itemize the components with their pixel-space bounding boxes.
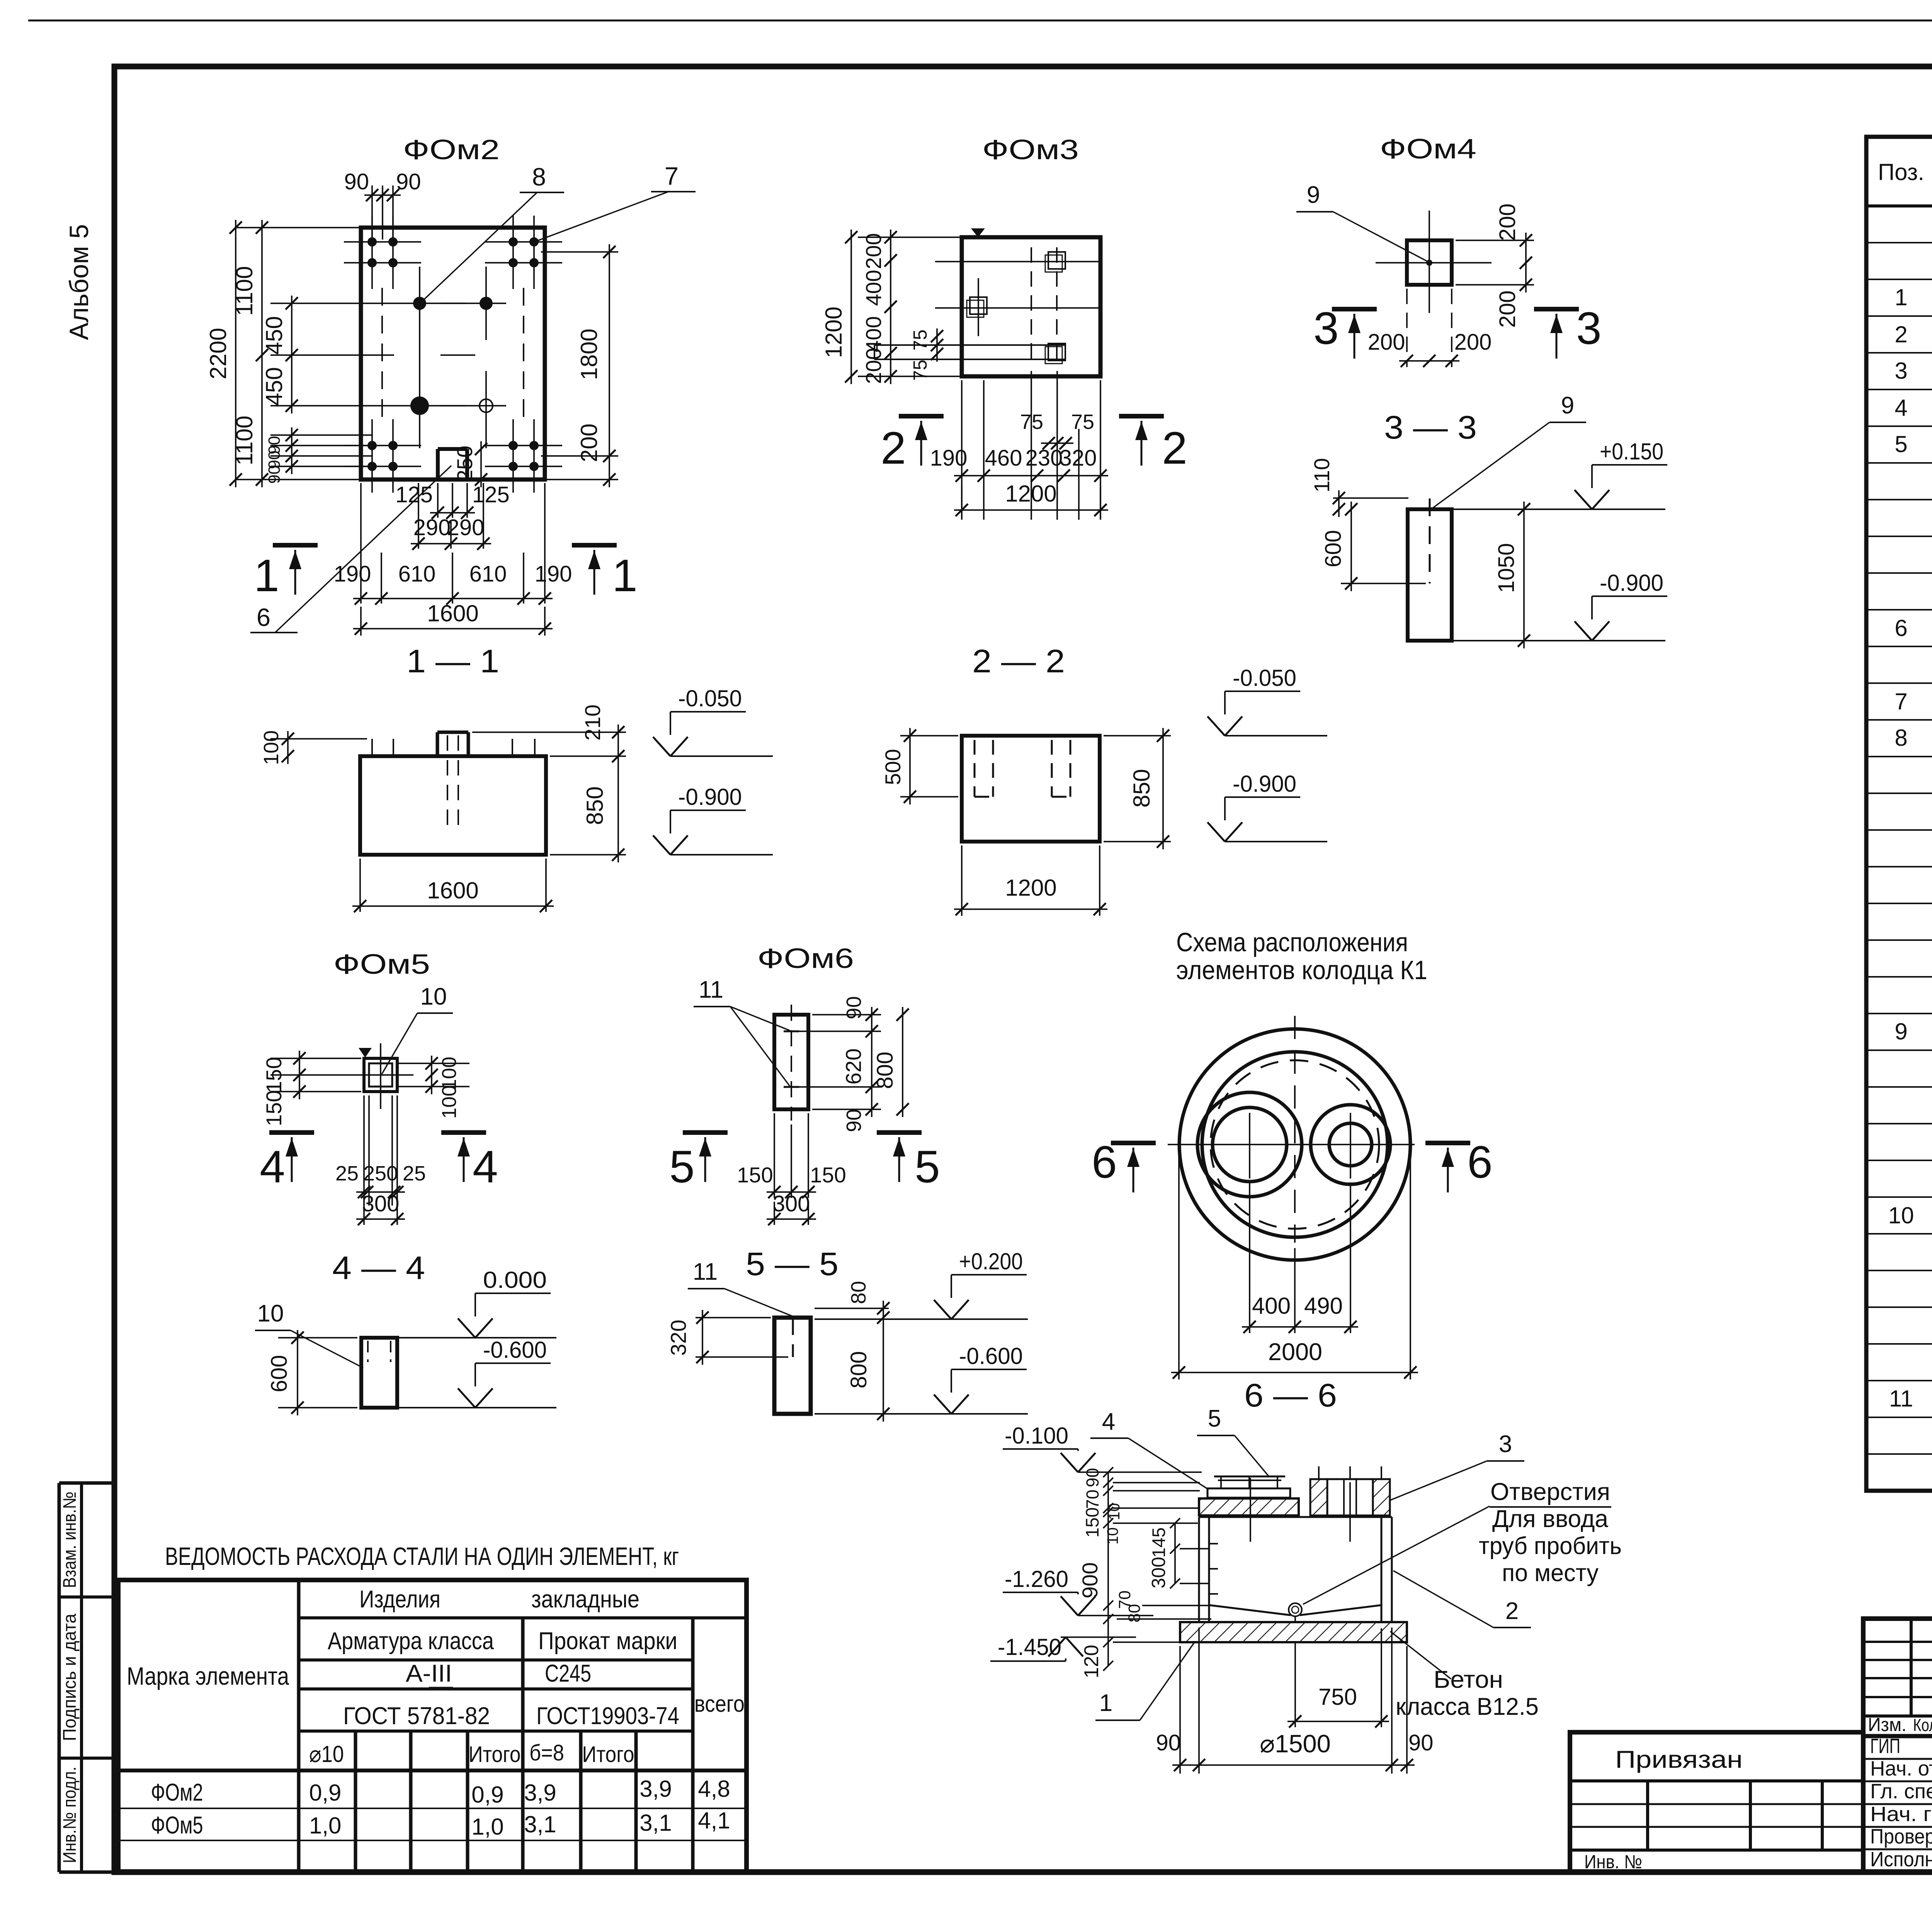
svg-text:75: 75 (1071, 410, 1094, 434)
svg-text:Итого: Итого (469, 1742, 521, 1767)
svg-text:Исполн.: Исполн. (1870, 1848, 1932, 1871)
FOm2 leader 6 (275, 466, 451, 633)
svg-text:1: 1 (254, 550, 279, 601)
svg-text:ВЕДОМОСТЬ РАСХОДА СТАЛИ НА ОДИ: ВЕДОМОСТЬ РАСХОДА СТАЛИ НА ОДИН ЭЛЕМЕНТ,… (165, 1542, 679, 1570)
spec table outer frame (1866, 137, 1932, 1491)
FOm2 mid horizontal thin line (373, 354, 394, 356)
svg-text:1: 1 (1099, 1690, 1112, 1716)
svg-text:Нач. гр.: Нач. гр. (1870, 1803, 1932, 1826)
FOm6 right dim 800 (902, 1007, 903, 1117)
schema horizontal axis (1168, 1144, 1415, 1145)
svg-text:-0.100: -0.100 (1005, 1423, 1068, 1449)
svg-text:Изделия: Изделия (359, 1586, 440, 1613)
svg-text:11: 11 (693, 1259, 718, 1285)
svg-text:Привязан: Привязан (1615, 1746, 1743, 1773)
svg-text:150: 150 (737, 1163, 773, 1187)
svg-text:9: 9 (1561, 392, 1574, 419)
svg-text:4: 4 (260, 1141, 285, 1192)
svg-text:600: 600 (267, 1355, 292, 1393)
svg-text:Гл. спец.: Гл. спец. (1870, 1780, 1932, 1803)
FOm3 left dim 1200 (850, 230, 852, 384)
svg-text:5: 5 (1208, 1405, 1221, 1432)
svg-text:6: 6 (1895, 615, 1907, 641)
FOm6 section mark 5 right (877, 1130, 922, 1135)
FOm4 bottom dashed extensions (1406, 289, 1408, 367)
svg-text:400: 400 (861, 316, 886, 352)
schema pipe axis verticals (1249, 1113, 1250, 1179)
FOm2 section mark 1 left (273, 543, 318, 548)
FOm2 centre dashed axis lines (381, 288, 383, 427)
section 5-5 elevation +0.200 (951, 1274, 1027, 1276)
FOm3 small dims 75 75 bottom (1041, 442, 1073, 444)
svg-text:-1.450: -1.450 (998, 1634, 1061, 1660)
svg-text:850: 850 (1129, 769, 1155, 808)
FOm6 bottom dim 300 (774, 1202, 775, 1225)
svg-text:6: 6 (1467, 1137, 1493, 1188)
FOm2 corner bolt cluster bottom-right (512, 419, 514, 493)
svg-text:200: 200 (1454, 330, 1492, 355)
svg-text:0.000: 0.000 (483, 1267, 547, 1293)
svg-text:2: 2 (1505, 1598, 1519, 1624)
schema outer ring circle (1179, 1029, 1410, 1260)
svg-text:2: 2 (1895, 321, 1907, 347)
svg-text:1600: 1600 (427, 878, 478, 903)
FOm3 left dim chain 200 400 400 200 (858, 236, 966, 238)
svg-text:320: 320 (666, 1320, 690, 1355)
svg-text:150: 150 (1082, 1507, 1102, 1537)
FOm3 embedded plate top-right (1048, 252, 1065, 269)
svg-text:Бетон: Бетон (1434, 1666, 1503, 1693)
FOm3 bottom dim 190 460 230 320 (954, 475, 1108, 476)
FOm2 right dim 1800 200 (541, 251, 618, 253)
svg-text:4: 4 (1895, 395, 1907, 421)
svg-text:Прокат марки: Прокат марки (538, 1628, 677, 1655)
FOm5 right dims 100 100 (431, 1056, 432, 1094)
6-6 dished floor (1209, 1605, 1291, 1615)
section 1-1 elevation -0.900 (670, 810, 746, 811)
svg-text:1100: 1100 (231, 266, 257, 316)
svg-text:5 — 5: 5 — 5 (746, 1246, 838, 1282)
svg-text:2000: 2000 (1268, 1338, 1322, 1366)
svg-text:900: 900 (1078, 1562, 1102, 1598)
6-6 concrete leader (1390, 1631, 1451, 1679)
svg-text:ФОм2: ФОм2 (403, 134, 500, 165)
svg-text:620: 620 (841, 1048, 866, 1084)
svg-text:100: 100 (438, 1085, 461, 1119)
FOm2 anchor bolts middle row lower (410, 396, 429, 415)
FOm3 small dims 75 75 left (936, 328, 938, 362)
svg-text:1200: 1200 (821, 306, 847, 358)
section 5-5 dashed bolt (792, 1320, 794, 1357)
svg-text:75: 75 (910, 330, 931, 351)
section 5-5 dim 80 800 right (815, 1308, 889, 1309)
schema dashed circle (1211, 1060, 1379, 1229)
FOm2 anchor bolts middle row upper (413, 297, 426, 310)
FOm3 top level triangle marker (971, 228, 985, 237)
svg-text:8: 8 (1895, 725, 1907, 751)
svg-text:490: 490 (1304, 1293, 1343, 1319)
FOm2 plate outline (361, 228, 545, 480)
svg-text:-0.050: -0.050 (678, 685, 742, 711)
FOm5 section mark 4 left (269, 1130, 314, 1135)
svg-text:450: 450 (261, 367, 287, 406)
6-6 bolt stubs above blocks (1318, 1466, 1320, 1479)
section 2-2 dashed anchor sockets (974, 740, 976, 797)
svg-text:7: 7 (1895, 689, 1907, 714)
svg-text:ФОм5: ФОм5 (151, 1812, 203, 1839)
section 1-1 dim 1600 bottom (359, 859, 361, 912)
svg-text:100: 100 (260, 730, 283, 765)
svg-text:110: 110 (1310, 458, 1334, 492)
svg-text:450: 450 (261, 316, 287, 355)
svg-text:ФОм6: ФОм6 (757, 943, 854, 974)
FOm5 level triangle marker (359, 1048, 372, 1058)
6-6 left dims 70 80 small (1117, 1618, 1211, 1620)
svg-text:+0.200: +0.200 (959, 1248, 1023, 1274)
svg-text:4 — 4: 4 — 4 (332, 1250, 425, 1286)
svg-text:11: 11 (699, 976, 723, 1003)
steel table header lines (297, 1580, 301, 1872)
svg-text:125: 125 (472, 482, 510, 507)
svg-text:1050: 1050 (1494, 543, 1519, 593)
FOm6 bolt crosses (784, 1031, 799, 1032)
svg-text:290: 290 (447, 515, 485, 540)
svg-text:850: 850 (582, 786, 608, 825)
svg-text:300: 300 (773, 1191, 810, 1216)
svg-text:Изм.: Изм. (1868, 1714, 1906, 1735)
svg-text:3,9: 3,9 (639, 1776, 672, 1802)
svg-text:190: 190 (334, 561, 371, 587)
svg-text:-0.600: -0.600 (483, 1337, 547, 1363)
section 3-3 column body (1408, 509, 1452, 641)
section 3-3 dim 600 (1341, 583, 1426, 584)
svg-text:⌀1500: ⌀1500 (1260, 1730, 1331, 1758)
6-6 luk plate (1207, 1488, 1290, 1498)
FOm3 embedded plate bottom (1048, 344, 1065, 361)
svg-text:300: 300 (362, 1191, 400, 1216)
svg-text:90: 90 (1083, 1468, 1102, 1487)
6-6 elevation -1.260 (1003, 1592, 1078, 1593)
FOm3 plate outline (962, 237, 1100, 376)
FOm3 section mark 2 right (1119, 414, 1164, 418)
svg-text:120: 120 (1080, 1645, 1103, 1679)
section 5-5 column body (774, 1318, 811, 1414)
svg-text:1: 1 (612, 550, 638, 601)
FOm2 dim 90 90 top (371, 185, 373, 240)
section 1-1 body (360, 756, 546, 855)
svg-text:1800: 1800 (576, 328, 602, 380)
svg-text:400: 400 (1252, 1293, 1291, 1319)
svg-text:2: 2 (881, 423, 906, 474)
svg-text:элементов колодца К1: элементов колодца К1 (1176, 955, 1427, 985)
FOm3 inner horizontal lines (935, 261, 1100, 262)
FOm6 plate outline (774, 1015, 808, 1109)
svg-text:А-III: А-III (406, 1660, 452, 1687)
6-6 left dim 900 (1107, 1523, 1109, 1666)
svg-text:6: 6 (257, 603, 270, 631)
schema right pipe inner (1329, 1123, 1372, 1166)
svg-text:9: 9 (1307, 182, 1320, 208)
svg-text:3: 3 (1576, 303, 1602, 354)
svg-text:200: 200 (1495, 291, 1520, 328)
schema left pipe inner (1213, 1107, 1287, 1182)
svg-text:11: 11 (1889, 1386, 1913, 1412)
svg-text:75: 75 (910, 360, 931, 381)
section 4-4 dim 600 (278, 1337, 357, 1338)
FOm2 leader 7 (536, 192, 668, 241)
sheet top edge line (28, 20, 1932, 22)
svg-text:всего: всего (694, 1691, 745, 1717)
FOm2 corner bolt cluster bottom-left (371, 419, 373, 493)
svg-text:10: 10 (420, 983, 447, 1010)
svg-text:190: 190 (535, 561, 572, 587)
schema right pipe outer (1311, 1105, 1390, 1184)
svg-text:70: 70 (1083, 1490, 1102, 1509)
svg-text:по месту: по месту (1502, 1560, 1599, 1587)
svg-text:200: 200 (861, 348, 886, 384)
FOm5 vertical lines down (363, 1095, 365, 1206)
svg-text:610: 610 (469, 561, 507, 587)
svg-text:250: 250 (452, 446, 477, 481)
6-6 bottom dim 90 1500 90 (1179, 1646, 1181, 1774)
svg-text:3,9: 3,9 (524, 1780, 556, 1806)
svg-text:закладные: закладные (531, 1586, 639, 1613)
svg-text:200: 200 (1495, 204, 1520, 241)
svg-text:90: 90 (344, 169, 369, 194)
FOm2 corner bolt cluster top-right (512, 216, 514, 289)
svg-text:2: 2 (1162, 423, 1187, 474)
FOm2 leader 8 (421, 192, 537, 302)
svg-text:1600: 1600 (427, 600, 478, 626)
svg-text:2 — 2: 2 — 2 (972, 643, 1065, 679)
schema section mark 6 right (1425, 1141, 1470, 1145)
schema section mark 6 left (1111, 1141, 1156, 1145)
section 1-1 dim 100 left (270, 738, 367, 740)
FOm3 embedded band (874, 344, 1065, 346)
6-6 left dim chain ticks upper (1107, 1472, 1109, 1523)
6-6 bottom slab hatched (1180, 1622, 1407, 1642)
svg-text:460: 460 (985, 446, 1022, 471)
svg-text:Арматура класса: Арматура класса (328, 1628, 494, 1655)
FOm2 section mark 1 right (572, 543, 617, 548)
FOm5 axis lines (380, 1043, 381, 1109)
6-6 left dim 120 (1103, 1637, 1113, 1647)
FOm6 right dim chain 90 620 90 (812, 1014, 881, 1015)
svg-text:ГОСТ19903-74: ГОСТ19903-74 (536, 1702, 679, 1730)
FOm4 column square (1407, 240, 1452, 285)
svg-text:300: 300 (1148, 1557, 1169, 1588)
FOm3 vertical axis lines (978, 278, 979, 336)
schema vertical dashed axis (1294, 1016, 1296, 1243)
FOm6 bottom dim 150 150 (774, 1113, 775, 1198)
svg-text:90: 90 (396, 169, 421, 194)
6-6 left elevation -0.100 (1003, 1448, 1078, 1450)
svg-text:4,1: 4,1 (698, 1808, 730, 1833)
svg-text:2200: 2200 (205, 328, 231, 379)
FOm3 embedded plate left (970, 297, 987, 314)
section 1-1 dashed bolt in stub (447, 735, 448, 827)
section 1-1 top stub (436, 732, 439, 756)
svg-text:Кол.уч: Кол.уч (1913, 1715, 1932, 1735)
svg-text:труб пробить: труб пробить (1479, 1532, 1622, 1560)
6-6 right wall (1381, 1517, 1383, 1624)
6-6 luk cover lines (1214, 1476, 1285, 1478)
FOm2 open bolt middle lower-right (480, 399, 493, 412)
svg-text:600: 600 (1321, 530, 1346, 568)
FOm4 centre axis lines (1376, 262, 1492, 264)
svg-text:Нач. отд.: Нач. отд. (1870, 1757, 1932, 1780)
svg-text:Инв. №: Инв. № (1584, 1852, 1642, 1872)
svg-text:800: 800 (872, 1052, 898, 1089)
section 2-2 body (962, 736, 1100, 842)
FOm4 bottom dim 200 200 (1399, 360, 1459, 362)
FOm3 section mark 2 left (899, 414, 944, 418)
svg-text:150: 150 (810, 1163, 846, 1187)
svg-text:ФОм3: ФОм3 (982, 134, 1079, 165)
svg-text:5: 5 (915, 1141, 940, 1192)
svg-text:4: 4 (473, 1141, 498, 1192)
FOm3 bottom dim 1200 (961, 487, 963, 518)
svg-text:10: 10 (1104, 1527, 1121, 1545)
svg-text:Итого: Итого (582, 1742, 634, 1767)
svg-text:-0.900: -0.900 (678, 784, 742, 810)
FOm5 column square outer (364, 1058, 397, 1092)
svg-text:210: 210 (580, 704, 605, 740)
svg-text:Схема расположения: Схема расположения (1176, 927, 1408, 957)
schema wall ring circle (1202, 1052, 1388, 1237)
svg-text:80: 80 (1125, 1604, 1144, 1622)
FOm2 corner bolt cluster top-left (371, 216, 373, 289)
svg-text:-0.600: -0.600 (959, 1343, 1023, 1369)
section 3-3 dashed bolt (1429, 498, 1431, 583)
section 3-3 dim 110 (1333, 497, 1408, 499)
6-6 right hatched block A (1310, 1479, 1327, 1515)
svg-text:9: 9 (1895, 1019, 1907, 1044)
svg-text:3: 3 (1499, 1431, 1512, 1458)
svg-text:ФОм2: ФОм2 (151, 1779, 203, 1806)
schema left pipe outer (1197, 1092, 1302, 1197)
6-6 left top slab (1199, 1498, 1299, 1515)
svg-text:7: 7 (665, 162, 679, 190)
FOm4 section mark 3 right (1534, 307, 1579, 311)
svg-text:10: 10 (1888, 1202, 1914, 1228)
FOm5 bottom dim 300 (363, 1198, 365, 1225)
svg-text:90: 90 (265, 465, 284, 484)
section 4-4 elevation -0.600 (475, 1362, 551, 1364)
svg-text:25: 25 (403, 1162, 426, 1185)
steel table outer frame (118, 1580, 747, 1872)
svg-text:1,0: 1,0 (309, 1813, 341, 1838)
svg-text:320: 320 (1060, 446, 1097, 471)
svg-text:0,9: 0,9 (471, 1782, 503, 1808)
section 1-1 elevation -0.050 (670, 711, 746, 713)
6-6 right hatched block B (1373, 1479, 1390, 1515)
svg-text:200: 200 (861, 233, 886, 269)
svg-text:0,9: 0,9 (309, 1780, 341, 1806)
svg-text:250: 250 (363, 1162, 398, 1185)
6-6 dim 750 (1381, 1628, 1382, 1727)
svg-text:Поз.: Поз. (1878, 159, 1924, 185)
FOm2 dim 250 notch (480, 441, 482, 487)
FOm2 bottom notch (436, 449, 440, 480)
svg-text:90: 90 (1408, 1730, 1434, 1755)
svg-text:6 — 6: 6 — 6 (1244, 1377, 1337, 1413)
svg-text:200: 200 (576, 423, 602, 462)
svg-text:10: 10 (257, 1300, 284, 1327)
svg-text:125: 125 (395, 482, 433, 507)
svg-text:⌀10: ⌀10 (309, 1741, 344, 1767)
svg-text:10: 10 (1106, 1503, 1123, 1520)
svg-text:100: 100 (438, 1057, 461, 1090)
svg-text:-1.260: -1.260 (1005, 1566, 1068, 1592)
FOm2 bottom dim 1600 (360, 607, 362, 636)
svg-text:Подпись и дата: Подпись и дата (59, 1613, 80, 1741)
svg-text:Взам. инв.№: Взам. инв.№ (59, 1492, 80, 1588)
svg-text:Провер.: Провер. (1870, 1825, 1932, 1848)
svg-text:8: 8 (532, 163, 546, 191)
svg-text:-0.900: -0.900 (1233, 771, 1296, 797)
svg-text:1,0: 1,0 (471, 1814, 503, 1840)
svg-text:145: 145 (1148, 1527, 1169, 1558)
svg-text:800: 800 (846, 1351, 871, 1389)
FOm5 horizontal lines to right (397, 1063, 469, 1064)
svg-text:ГИП: ГИП (1870, 1735, 1900, 1758)
section 3-3 elevation -0.900 (1592, 595, 1667, 597)
svg-text:1200: 1200 (1005, 481, 1056, 507)
svg-text:190: 190 (930, 446, 968, 471)
svg-text:1 — 1: 1 — 1 (406, 643, 499, 679)
svg-text:5: 5 (669, 1141, 695, 1192)
svg-text:3: 3 (1313, 303, 1339, 354)
6-6 elevation -1.450 (990, 1660, 1066, 1662)
FOm4 section mark 3 left (1332, 307, 1377, 311)
6-6 wall tick marks (1209, 1543, 1218, 1544)
svg-text:3: 3 (1895, 358, 1907, 384)
svg-text:3,1: 3,1 (639, 1810, 672, 1836)
svg-text:1100: 1100 (231, 415, 257, 465)
FOm2 left dim chain 2200 (236, 227, 365, 228)
6-6 dim 145 300 inside (1174, 1523, 1176, 1583)
svg-text:750: 750 (1318, 1684, 1357, 1710)
svg-text:290: 290 (413, 515, 451, 540)
6-6 holes leader (1303, 1506, 1490, 1604)
section 1-1 anchor bolt stubs on top (371, 739, 373, 756)
spec table header row line (1866, 204, 1932, 207)
svg-text:ФОм5: ФОм5 (333, 949, 430, 980)
schema dim 2000 (1178, 1150, 1180, 1379)
svg-text:-0.050: -0.050 (1233, 665, 1296, 691)
svg-text:-0.900: -0.900 (1600, 570, 1663, 596)
svg-text:Инв.№ подл.: Инв.№ подл. (59, 1767, 80, 1863)
svg-text:80: 80 (847, 1281, 870, 1304)
svg-text:230: 230 (1026, 446, 1063, 471)
section 2-2 elevation -0.050 (1225, 690, 1300, 692)
svg-text:6: 6 (1092, 1137, 1117, 1188)
svg-text:90: 90 (842, 1109, 866, 1132)
svg-text:4,8: 4,8 (698, 1776, 730, 1802)
svg-text:Альбом 5: Альбом 5 (64, 224, 94, 340)
spec table row lines (1866, 242, 1932, 243)
section 3-3 elevation +0.150 (1592, 464, 1667, 466)
svg-text:С245: С245 (545, 1660, 591, 1687)
svg-text:класса В12.5: класса В12.5 (1396, 1693, 1539, 1720)
svg-text:3 — 3: 3 — 3 (1384, 409, 1477, 446)
FOm2 left dim chain 1100 1100 (261, 220, 263, 487)
section 2-2 dim 1200 bottom (961, 845, 963, 916)
FOm2 bottom dim 190 610 610 190 (360, 483, 362, 604)
FOm5 section mark 4 right (441, 1130, 486, 1135)
svg-text:150: 150 (262, 1057, 286, 1093)
